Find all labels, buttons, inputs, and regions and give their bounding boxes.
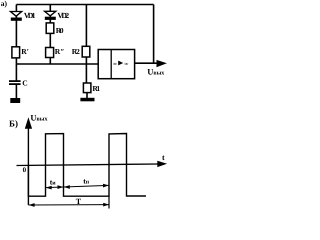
wire R0 to R'' [49,33,51,47]
waveform V axis (also first falling edge of trace) [27,125,29,205]
dimension T [28,204,109,206]
svg-text:∞: ∞ [124,61,128,67]
svg-text:C: C [22,79,27,88]
ground under C [10,98,20,103]
wire VD1 stem [15,5,17,47]
svg-text:R′: R′ [21,47,29,56]
dimension t_i arrows [46,185,110,187]
svg-text:R2: R2 [72,47,80,56]
op-amp gain symbol [113,61,128,68]
svg-text:R0: R0 [56,26,64,35]
wire R'' bottom to bus [49,58,51,65]
ground under R1 [80,98,94,102]
capacitor C [9,80,21,85]
wire R1 bottom to ground [86,92,88,98]
waveform t axis [17,164,160,166]
svg-text:VD1: VD1 [24,11,36,20]
svg-text:∞: ∞ [113,61,117,67]
svg-text:0: 0 [23,166,27,174]
dimension t_p arrows [64,185,70,189]
svg-text:T: T [76,197,82,206]
wire top rail [16,4,153,6]
wire bus node line [16,63,98,65]
waveform square wave trace [28,134,146,197]
wire right rail down [153,5,155,64]
wire VD2 stem [49,5,51,23]
svg-text:t: t [162,153,165,162]
svg-text:R″: R″ [55,47,65,56]
svg-text:R1: R1 [92,84,100,93]
wire R' bottom to bus [15,58,17,65]
wire R2 column top [85,5,87,47]
resistor R'' [46,48,54,58]
wire bus to capacitor [15,64,17,80]
op-amp U1 box [98,50,134,79]
wire R2 bottom through bus to R1 top [85,57,87,83]
svg-text:VD2: VD2 [57,11,69,20]
resistor R2 [82,46,90,57]
wire capacitor to ground [15,85,17,99]
wire output line [135,62,158,64]
diode VD1 [11,12,22,21]
output arrowhead [157,60,167,67]
svg-text:а): а) [1,0,8,8]
resistor R' [12,47,20,58]
op-amp divider [110,50,112,79]
resistor R1 [83,83,91,93]
diode VD2 [45,11,56,20]
svg-text:Б): Б) [9,118,18,128]
resistor R0 [46,23,54,34]
extension line right [108,196,110,208]
